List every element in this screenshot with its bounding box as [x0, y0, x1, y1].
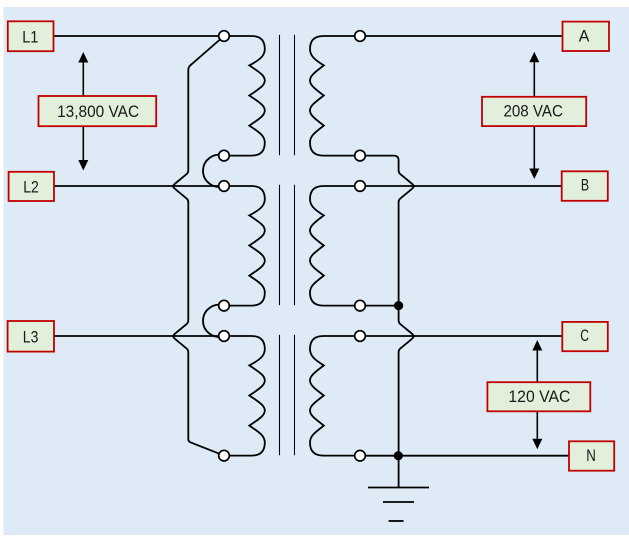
svg-text:C: C [580, 326, 589, 345]
svg-text:L1: L1 [22, 27, 38, 46]
svg-text:208 VAC: 208 VAC [503, 102, 563, 121]
svg-text:B: B [581, 176, 589, 195]
svg-text:13,800 VAC: 13,800 VAC [57, 102, 139, 121]
svg-text:L3: L3 [23, 328, 39, 347]
svg-text:A: A [579, 27, 590, 46]
svg-text:L2: L2 [23, 178, 39, 197]
svg-text:120 VAC: 120 VAC [508, 387, 570, 406]
svg-text:N: N [586, 446, 596, 465]
